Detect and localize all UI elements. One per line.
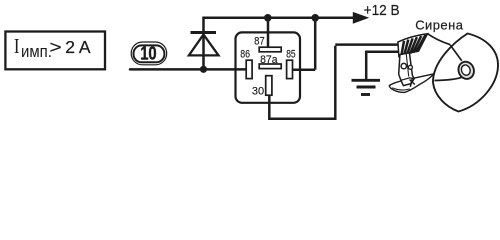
svg-text:87: 87 [254, 36, 265, 48]
svg-text:>: > [50, 38, 62, 57]
svg-text:10: 10 [140, 43, 156, 64]
svg-text:Сирена: Сирена [415, 18, 464, 33]
svg-text:I: I [14, 35, 20, 58]
svg-text:87a: 87a [260, 54, 277, 66]
svg-text:86: 86 [240, 49, 250, 61]
svg-text:2: 2 [65, 37, 75, 57]
svg-text:А: А [79, 37, 91, 57]
svg-text:имп.: имп. [21, 43, 52, 61]
svg-text:30: 30 [252, 86, 264, 98]
svg-text:+12 В: +12 В [364, 3, 400, 20]
svg-text:85: 85 [286, 49, 296, 61]
